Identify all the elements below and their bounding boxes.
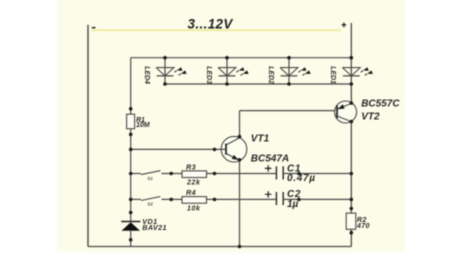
wire S2 to R4 [162,198,183,200]
plus terminal [342,23,347,28]
svg-text:S1: S1 [147,176,153,181]
wire column R1/VD1 middle [130,129,132,222]
svg-text:22k: 22k [186,180,201,187]
wire column R1/VD1 upper [130,58,132,114]
switch S1 [141,171,160,175]
right positive rail upper segment [350,23,352,103]
resistor R2 [346,213,370,230]
wire column VD1 to rail [130,231,132,247]
wire C2 to rail [284,198,352,200]
row S2/R4/C2 wires [131,198,141,200]
positive rail (yellow) [92,29,342,31]
transistor VT2 base wire [240,110,337,112]
svg-text:10k: 10k [187,206,201,213]
wire R3 to C1 [207,173,276,175]
svg-text:BC557C: BC557C [361,99,400,110]
svg-text:LED2: LED2 [267,66,274,84]
row S1/R3/C1 wires [131,173,141,175]
diode VD1 [121,217,167,232]
minus terminal [92,27,96,29]
svg-text:R3: R3 [186,162,196,171]
svg-text:VT1: VT1 [251,134,270,145]
wire C1 to rail [284,173,352,175]
switch S2 [141,197,160,201]
svg-text:470: 470 [356,221,370,230]
resistor R1 [127,114,150,129]
svg-text:R4: R4 [186,188,196,197]
svg-text:BAV21: BAV21 [142,223,167,232]
resistor R3 [182,162,207,186]
svg-text:1µ: 1µ [287,199,299,210]
wire R4 to C2 [207,198,276,200]
LED1 [329,66,373,84]
bottom rail [88,246,351,248]
right rail lower segment [350,122,352,247]
svg-text:LED3: LED3 [205,66,212,84]
svg-text:10M: 10M [136,122,150,129]
LED cathode bus [165,83,351,85]
svg-text:VT2: VT2 [361,111,380,122]
transistor VT2 [335,99,401,123]
svg-text:3...12V: 3...12V [188,17,234,32]
wire VT1 collector up [239,111,241,138]
LED2 [267,58,311,84]
svg-text:LED1: LED1 [329,66,336,84]
transistor VT1 [221,134,289,165]
LED anode bus [131,57,352,59]
svg-text:BC547A: BC547A [251,154,289,165]
wire VT1 emitter down [239,160,241,246]
capacitor C1 [265,164,316,184]
LED3 [205,58,249,84]
capacitor C2 [265,189,301,210]
svg-text:S2: S2 [147,202,153,207]
left negative rail [87,25,89,247]
wire S1 to R3 [162,173,183,175]
LED4 [143,58,187,84]
wire VT1 base row [131,148,226,150]
svg-text:0.47µ: 0.47µ [287,173,316,184]
svg-text:LED4: LED4 [143,66,150,84]
resistor R4 [182,188,207,212]
